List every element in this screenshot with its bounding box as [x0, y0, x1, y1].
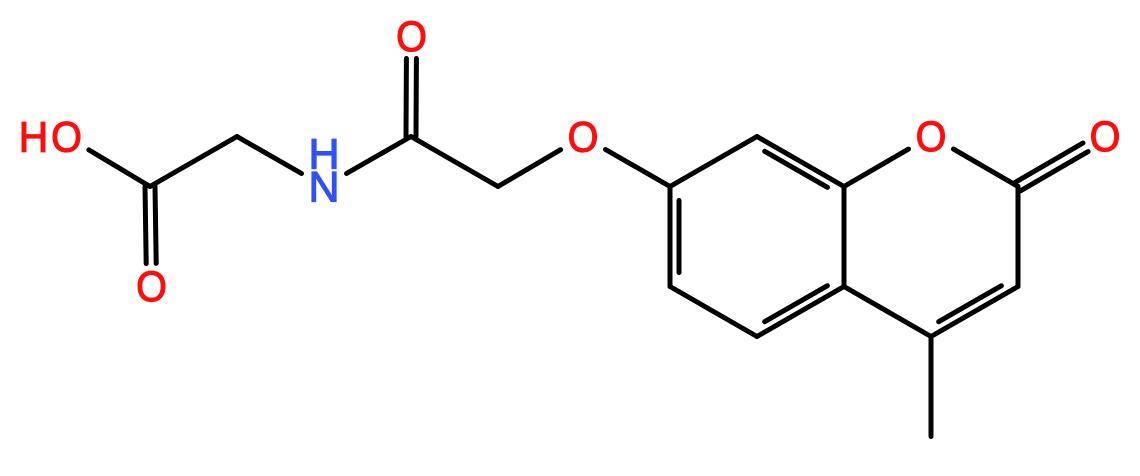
svg-text:O: O — [1090, 112, 1121, 160]
aromatic double bond C6=C7 — [670, 187, 679, 287]
bond C4-CH3 (methyl) — [929, 337, 934, 437]
double bond C2=O3 (lactone) — [1016, 143, 1089, 191]
bond C(acid)-CH2 — [150, 137, 237, 187]
double bond C=O (amide) — [406, 59, 416, 137]
aromatic double bond C8=C8a — [757, 137, 844, 188]
svg-text:N: N — [308, 164, 339, 212]
bond CH2-O(ether) — [498, 150, 561, 187]
double bond C3=C4 — [931, 286, 1018, 337]
bond C4-C4a — [844, 287, 931, 337]
bond C8a-O1 — [844, 149, 909, 186]
bond O(ether)-C7 — [606, 150, 671, 187]
bond C8a-C4a (ring fusion) — [842, 187, 847, 287]
atom label HO (hydroxyl) — [19, 113, 82, 161]
bond C7-C8 — [670, 137, 757, 187]
bond N-C(amide) — [347, 137, 412, 174]
bond CH2-N — [237, 137, 302, 174]
bond C2-C3 — [1016, 187, 1021, 287]
svg-text:O: O — [396, 12, 427, 60]
bond HO-C(acid) — [89, 150, 150, 187]
bond C(amide)-CH2 — [411, 137, 498, 187]
svg-text:H: H — [19, 113, 48, 161]
svg-text:O: O — [568, 113, 599, 161]
bond O1-C2 — [954, 149, 1019, 186]
svg-text:O: O — [136, 262, 167, 310]
svg-text:O: O — [916, 112, 947, 160]
double bond C=O (acid) — [145, 186, 156, 263]
aromatic double bond C4a=C5 — [757, 286, 844, 337]
svg-text:O: O — [51, 113, 82, 161]
bond C5-C6 — [670, 287, 757, 337]
